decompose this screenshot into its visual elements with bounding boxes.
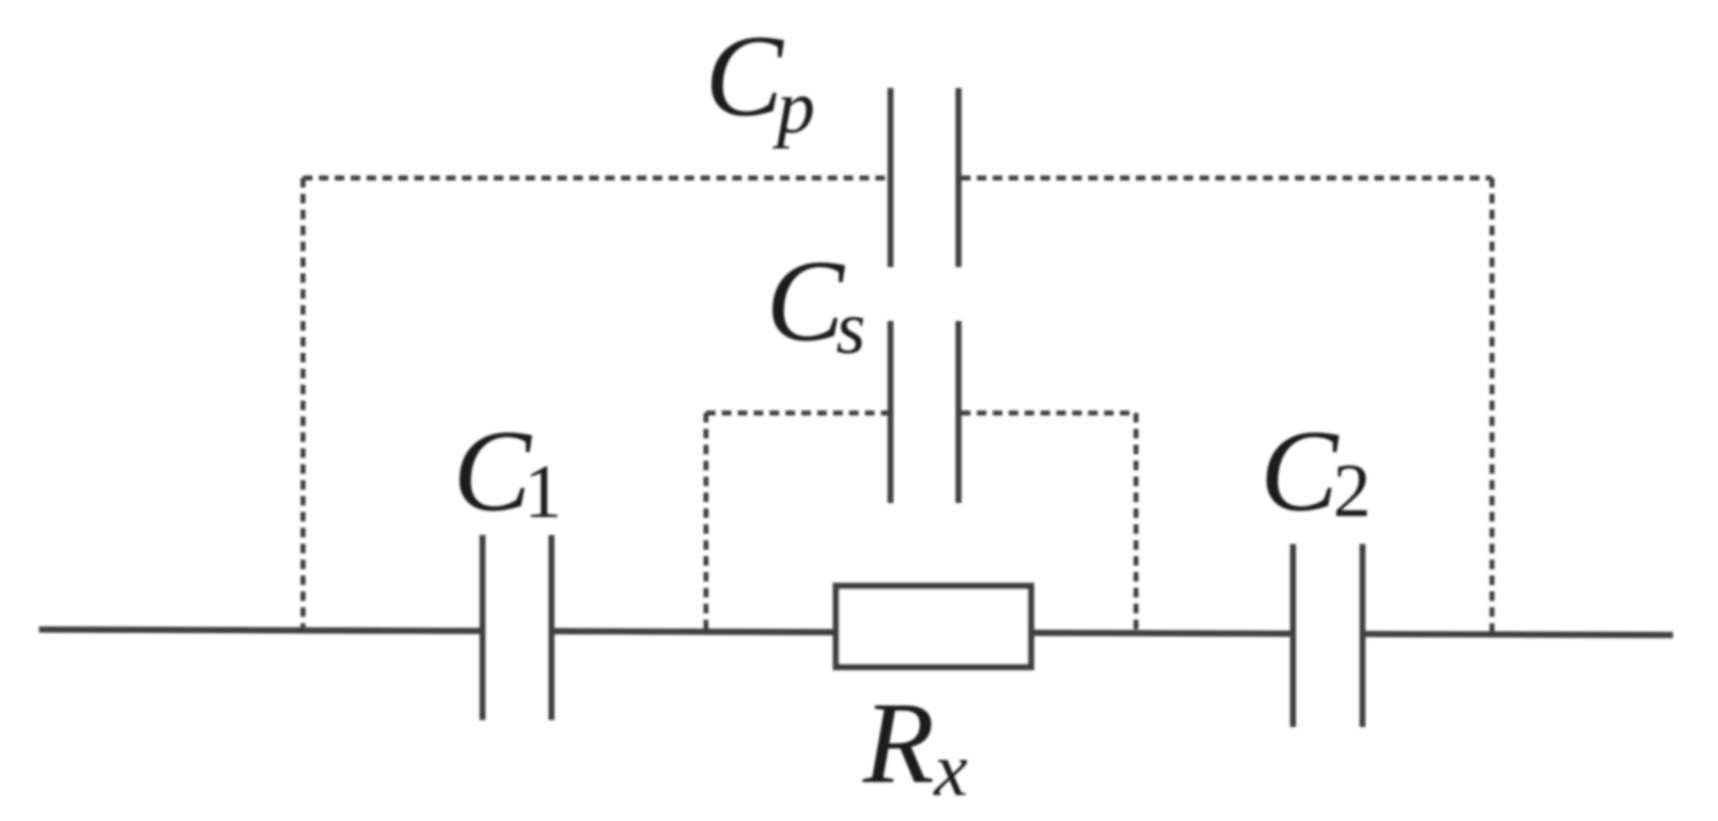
wire: inner dashed box, right vertical	[1134, 413, 1139, 633]
svg-text:C: C	[766, 237, 846, 366]
wire: outer dashed box, top edge left of Cp	[303, 176, 888, 181]
wire: main horizontal, segment C2 to right end	[1362, 634, 1673, 635]
label Cp	[705, 12, 815, 149]
label C2	[1260, 407, 1371, 536]
wire: outer dashed box, top edge right of Cp	[961, 176, 1492, 181]
capacitor Cs: right plate	[956, 321, 962, 503]
svg-text:1: 1	[524, 450, 562, 534]
capacitor C1: right plate	[549, 535, 555, 720]
wire: inner dashed box, top edge left of Cs	[706, 411, 888, 416]
capacitor C2: left plate	[1290, 544, 1296, 727]
svg-text:C: C	[453, 407, 533, 536]
wire: outer dashed box, right vertical	[1490, 178, 1495, 634]
wire: main horizontal, segment Rx to C2	[1029, 630, 1293, 637]
label C1	[453, 407, 562, 536]
wire: main horizontal, segment left of C1	[39, 630, 482, 632]
wire: outer dashed box, left vertical	[301, 178, 306, 630]
svg-text:2: 2	[1333, 449, 1371, 533]
capacitor Cs: left plate	[888, 321, 894, 503]
capacitor Cp: left plate	[888, 88, 894, 267]
svg-text:s: s	[836, 286, 866, 370]
svg-text:p: p	[772, 65, 815, 149]
capacitor C2: right plate	[1360, 544, 1366, 727]
capacitor C1: left plate	[480, 535, 486, 720]
wire: inner dashed box, top edge right of Cs	[961, 411, 1136, 416]
svg-text:C: C	[705, 12, 785, 141]
svg-text:R: R	[862, 679, 934, 808]
capacitor Cp: right plate	[956, 88, 962, 267]
label Cs	[766, 237, 866, 370]
wire: inner dashed box, left vertical	[704, 413, 709, 631]
svg-text:x: x	[933, 728, 968, 812]
label Rx	[862, 679, 968, 812]
resistor Rx: body rectangle	[836, 586, 1031, 667]
svg-text:C: C	[1260, 407, 1340, 536]
wire: main horizontal, segment C1 to Rx	[552, 631, 838, 632]
